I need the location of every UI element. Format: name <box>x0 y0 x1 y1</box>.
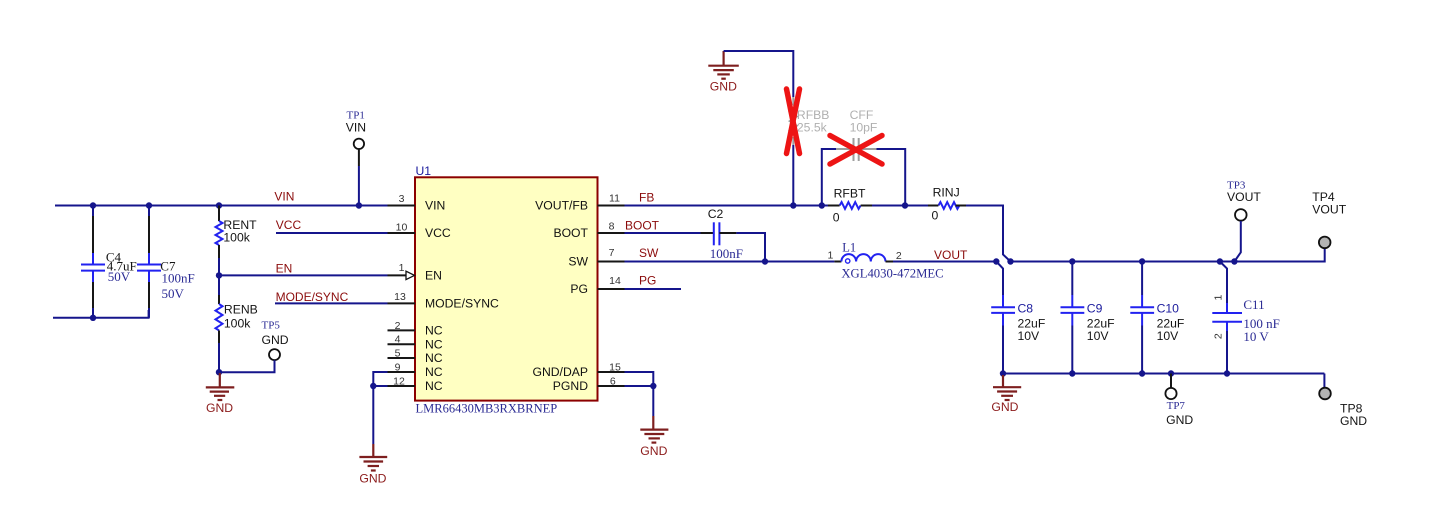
svg-text:10pF: 10pF <box>850 120 878 134</box>
svg-text:RENB: RENB <box>224 303 258 317</box>
wire rail to TP8 <box>1323 374 1325 388</box>
wire NC9-NC12 tie <box>373 372 387 386</box>
svg-text:C9: C9 <box>1087 301 1103 315</box>
capacitor C10 <box>1130 262 1184 374</box>
pin 12 NC <box>388 385 416 387</box>
svg-text:12: 12 <box>393 376 405 388</box>
svg-text:EN: EN <box>276 262 293 276</box>
svg-text:50V: 50V <box>162 286 185 301</box>
svg-text:VOUT: VOUT <box>1227 190 1261 204</box>
node FB junction dots <box>790 202 796 208</box>
svg-text:0: 0 <box>833 211 840 225</box>
svg-text:RINJ: RINJ <box>933 186 960 200</box>
svg-text:15: 15 <box>609 362 621 374</box>
testpoint TP1 <box>346 109 366 205</box>
pin 2 NC <box>388 329 416 331</box>
svg-text:C10: C10 <box>1157 301 1180 315</box>
svg-text:NC: NC <box>425 324 443 338</box>
svg-text:C8: C8 <box>1018 301 1034 315</box>
pin 3 VIN <box>388 205 416 207</box>
resistor RINJ <box>928 186 966 223</box>
testpoint TP8 <box>1319 388 1367 428</box>
svg-text:7: 7 <box>609 247 615 259</box>
svg-text:SW: SW <box>639 246 659 260</box>
svg-text:GND: GND <box>1340 414 1367 428</box>
svg-text:5: 5 <box>395 348 401 360</box>
svg-text:GND: GND <box>991 400 1018 414</box>
svg-text:10V: 10V <box>1018 329 1041 343</box>
svg-text:C2: C2 <box>708 207 724 221</box>
no-ERC cross on RFBB <box>787 89 800 154</box>
wire GND/DAP + PGND tie <box>625 372 654 386</box>
svg-text:2: 2 <box>896 250 902 262</box>
svg-text:100nF: 100nF <box>162 271 195 286</box>
svg-text:8: 8 <box>609 220 615 232</box>
inductor L1 <box>828 240 944 280</box>
svg-text:NC: NC <box>425 365 443 379</box>
wire FB line <box>625 205 829 207</box>
svg-text:GND/DAP: GND/DAP <box>532 365 588 379</box>
svg-text:3: 3 <box>399 193 405 205</box>
svg-text:11: 11 <box>609 193 620 205</box>
wire BOOT line <box>625 232 701 234</box>
svg-text:VIN: VIN <box>346 121 366 135</box>
svg-text:10V: 10V <box>1157 329 1180 343</box>
pin 9 NC <box>388 371 416 373</box>
svg-text:100k: 100k <box>223 231 250 245</box>
svg-text:VCC: VCC <box>276 218 302 232</box>
svg-text:PG: PG <box>570 282 588 296</box>
svg-text:NC: NC <box>425 379 443 393</box>
ground symbol top <box>708 51 739 94</box>
pin 10 VCC <box>388 232 416 234</box>
svg-text:4: 4 <box>395 334 401 346</box>
svg-text:MODE/SYNC: MODE/SYNC <box>425 297 499 311</box>
svg-text:GND: GND <box>262 333 289 347</box>
node PGND junction <box>650 383 656 389</box>
wire EN <box>219 274 388 276</box>
svg-text:BOOT: BOOT <box>553 226 588 240</box>
svg-text:SW: SW <box>568 255 588 269</box>
svg-text:50V: 50V <box>108 269 131 284</box>
wire bottom GND rail <box>1003 373 1324 375</box>
ground symbol at C8 <box>991 375 1021 414</box>
node NC tie junction <box>370 383 376 389</box>
svg-text:GND: GND <box>206 401 233 415</box>
wire bottom-left rail <box>53 310 149 318</box>
pin 8 BOOT <box>598 232 625 234</box>
ground symbol at TP5 <box>206 373 235 415</box>
svg-text:VOUT: VOUT <box>934 248 968 262</box>
wire VOUT rail right <box>1011 261 1235 263</box>
wire FB to RINJ <box>905 205 928 207</box>
capacitor C9 <box>1061 262 1115 374</box>
svg-text:C11: C11 <box>1243 297 1264 312</box>
svg-text:MODE/SYNC: MODE/SYNC <box>276 290 349 304</box>
pin 6 PGND <box>598 385 625 387</box>
svg-text:25.5k: 25.5k <box>797 120 828 134</box>
node junction dots on VIN rail <box>90 202 96 208</box>
node SW/C2 junction <box>762 258 768 264</box>
svg-text:GND: GND <box>359 472 386 486</box>
svg-text:VIN: VIN <box>274 190 294 204</box>
capacitor C11 <box>1212 295 1280 374</box>
svg-text:U1: U1 <box>416 164 432 178</box>
svg-text:GND: GND <box>640 444 667 458</box>
svg-text:10: 10 <box>396 222 408 234</box>
svg-text:6: 6 <box>610 375 616 387</box>
node junction dot C4 bottom <box>90 315 96 321</box>
capacitor C4 <box>81 206 137 318</box>
wire SW line <box>625 261 835 263</box>
svg-text:TP7: TP7 <box>1167 400 1186 412</box>
pin 1 EN <box>388 274 407 276</box>
svg-text:VOUT: VOUT <box>1312 203 1346 217</box>
wire RINJ to VOUT rail <box>966 206 1011 262</box>
resistor RFBT <box>828 186 905 224</box>
resistor RFBB (disabled) <box>790 97 830 206</box>
capacitor C7 <box>137 206 195 318</box>
svg-text:GND: GND <box>710 80 737 94</box>
node EN junction <box>216 272 222 278</box>
ground symbol below U1 <box>359 444 387 486</box>
svg-text:TP5: TP5 <box>262 319 281 331</box>
capacitor C8 <box>991 295 1045 374</box>
svg-text:NC: NC <box>425 351 443 365</box>
pin 14 PG <box>598 288 625 290</box>
svg-text:100k: 100k <box>224 316 251 330</box>
wire MODE/SYNC <box>275 302 388 304</box>
resistor RENB <box>216 275 258 372</box>
svg-text:PGND: PGND <box>553 379 588 393</box>
wire VOUT to TP4 <box>1234 249 1324 262</box>
pin 13 MODE/SYNC <box>388 302 416 304</box>
svg-text:2: 2 <box>1213 333 1225 339</box>
svg-text:FB: FB <box>639 191 654 205</box>
svg-text:LMR66430MB3RXBRNEP: LMR66430MB3RXBRNEP <box>416 402 558 416</box>
ground symbol at PGND <box>640 416 668 458</box>
svg-text:VCC: VCC <box>425 226 451 240</box>
wire jog to C8 branch <box>996 262 1003 296</box>
testpoint TP4 <box>1312 190 1346 248</box>
svg-text:GND: GND <box>1166 413 1193 427</box>
node C9 C10 top junctions <box>1069 258 1075 264</box>
capacitor CFF (disabled) <box>822 108 905 206</box>
svg-text:VIN: VIN <box>425 199 445 213</box>
svg-text:L1: L1 <box>842 240 856 254</box>
capacitor C2 <box>701 207 744 261</box>
svg-text:1: 1 <box>828 249 834 261</box>
svg-text:10V: 10V <box>1087 329 1110 343</box>
svg-text:1: 1 <box>399 262 405 274</box>
node TP3/C11 jog junctions <box>1217 258 1223 264</box>
node GND junction below RENB <box>216 369 222 375</box>
svg-text:9: 9 <box>395 362 401 374</box>
op-amp U1 body <box>415 177 598 400</box>
svg-text:10 V: 10 V <box>1243 329 1269 344</box>
svg-text:BOOT: BOOT <box>625 219 660 233</box>
svg-text:0: 0 <box>932 208 939 222</box>
testpoint TP3 <box>1227 180 1261 262</box>
svg-text:PG: PG <box>639 274 656 288</box>
pin 4 NC <box>388 343 416 345</box>
wire C2 to SW <box>736 233 765 262</box>
svg-text:EN: EN <box>425 269 442 283</box>
wire VIN top rail <box>55 205 388 207</box>
svg-text:TP1: TP1 <box>347 109 365 121</box>
testpoint TP7 <box>1165 374 1193 427</box>
svg-text:NC: NC <box>425 337 443 351</box>
wire PG stub <box>625 288 682 290</box>
svg-text:2: 2 <box>395 320 401 332</box>
resistor RENT <box>216 206 258 276</box>
svg-text:13: 13 <box>394 291 406 303</box>
pin 7 SW <box>598 261 625 263</box>
svg-text:14: 14 <box>609 275 621 287</box>
wire jog to C11 branch <box>1220 262 1227 304</box>
svg-text:XGL4030-472MEC: XGL4030-472MEC <box>841 266 943 280</box>
pin 11 VOUT/FB <box>598 205 625 207</box>
svg-text:100nF: 100nF <box>710 246 743 261</box>
wire top GND to RFBB <box>724 51 794 97</box>
no-ERC cross on CFF <box>830 136 882 165</box>
node VOUT jog junctions <box>993 258 999 264</box>
svg-text:VOUT/FB: VOUT/FB <box>535 199 588 213</box>
testpoint TP5 <box>219 319 289 372</box>
pin 15 GND/DAP <box>598 371 625 373</box>
svg-text:1: 1 <box>1213 295 1225 301</box>
wire VCC <box>276 232 388 234</box>
svg-text:RFBT: RFBT <box>834 186 866 200</box>
pin 5 NC <box>388 357 416 359</box>
wire NC tie to ground <box>372 386 374 444</box>
wire VOUT rail <box>893 261 996 263</box>
node bottom rail junctions <box>1000 370 1006 376</box>
